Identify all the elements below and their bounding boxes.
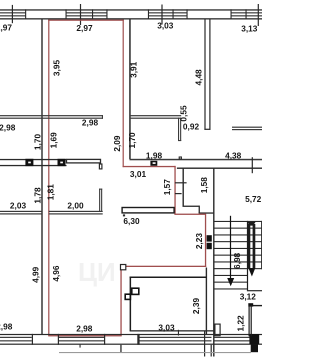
vestibule left wall line 1 xyxy=(249,305,250,336)
stair door block upper xyxy=(207,235,212,241)
dimension tick on wall A right xyxy=(252,157,253,173)
duct fixture inner box xyxy=(125,294,130,299)
door tick upper in lobby xyxy=(175,182,187,183)
door tick lower in lobby xyxy=(175,193,182,194)
window W3 dimension tick xyxy=(161,5,162,25)
porch left wall below band xyxy=(120,345,121,353)
stair landing bottom line xyxy=(247,290,262,291)
svg-text:5,72: 5,72 xyxy=(245,194,262,204)
stair stringer top trapezoid xyxy=(247,222,256,226)
neighbour closet wall right line xyxy=(180,118,181,141)
neighbour closet wall left line xyxy=(178,118,179,141)
svg-text:3,01: 3,01 xyxy=(130,169,147,179)
room 2,39 top wall xyxy=(130,277,207,279)
svg-text:1,69: 1,69 xyxy=(49,132,59,149)
stair stringer bottom arrow xyxy=(248,268,255,277)
wall row2 pier block A xyxy=(25,159,33,166)
window W2 mullion xyxy=(92,9,93,19)
svg-text:4,38: 4,38 xyxy=(225,151,242,161)
window W2 dimension tick xyxy=(80,4,81,25)
lower wall row3 left segment top line xyxy=(0,211,42,212)
red unit boundary left side xyxy=(48,20,49,336)
wall V1 between left flat and unit xyxy=(41,19,42,335)
bottom pier box 1 right edge xyxy=(58,334,59,345)
bottom black pier xyxy=(249,334,259,344)
wall row2 band bottom line xyxy=(0,165,67,166)
red unit boundary top side xyxy=(48,20,124,21)
square bump marker on wall A xyxy=(179,157,181,159)
bottom black pier lower part xyxy=(251,344,258,352)
window W2 hatch lines xyxy=(66,12,107,16)
window W3 mullion xyxy=(173,9,174,19)
stair stringer right bar xyxy=(253,224,256,268)
bottom wall right hatch xyxy=(215,337,250,342)
svg-text:1,58: 1,58 xyxy=(199,177,209,194)
bottom exterior wall bottom chord xyxy=(0,344,262,345)
white corner marker square xyxy=(121,265,126,270)
svg-text:6,30: 6,30 xyxy=(123,216,140,226)
lower wall row3 unit segment top line xyxy=(49,211,103,212)
unit hall wall bar xyxy=(67,159,101,163)
corridor wall row1 top line left part xyxy=(0,115,103,116)
svg-text:3,03: 3,03 xyxy=(158,323,175,333)
svg-text:2,23: 2,23 xyxy=(194,233,204,250)
stair door block lower xyxy=(207,243,212,249)
red unit boundary niche top xyxy=(174,214,206,215)
svg-text:3,95: 3,95 xyxy=(52,60,62,77)
6,30 wall bar xyxy=(122,208,174,213)
svg-text:2,97: 2,97 xyxy=(76,23,93,33)
red unit boundary lower right vertical xyxy=(120,266,121,336)
window W3 right edge xyxy=(187,9,188,19)
bottom pier box 1 left edge xyxy=(32,334,33,345)
wall line A (1,98 / 4,38 wall) xyxy=(130,159,263,161)
wall right of 2,39 room xyxy=(206,268,207,335)
neighbour wall row1 top line xyxy=(131,115,182,116)
room 2,39 bottom line xyxy=(130,330,214,331)
neighbour closet wall bottom cap xyxy=(178,140,181,141)
stair treads full width xyxy=(214,221,262,269)
stair right edge line xyxy=(260,221,263,269)
svg-text:1,22: 1,22 xyxy=(235,315,245,332)
vestibule top line xyxy=(249,305,263,306)
vestibule corner block xyxy=(248,303,253,306)
svg-text:2,97: 2,97 xyxy=(0,23,12,33)
stair treads lower flight left half xyxy=(214,275,248,290)
svg-text:2,98: 2,98 xyxy=(0,322,13,332)
window W3 left edge xyxy=(148,9,149,19)
top exterior wall bottom chord xyxy=(0,18,262,19)
stair stringer left bar xyxy=(248,224,251,268)
pier block A white dot xyxy=(28,162,31,164)
tick below band at x 80 xyxy=(80,345,81,348)
svg-text:2,98: 2,98 xyxy=(0,122,16,132)
closet upright left line xyxy=(99,189,100,212)
window W1 dimension tick xyxy=(12,5,13,23)
wall row2 band top line xyxy=(0,159,67,160)
lift shaft bottom step vertical xyxy=(199,206,200,214)
red unit boundary right side upper xyxy=(123,20,124,168)
window W3 hatch lines xyxy=(148,12,187,16)
unit hall wall bar tab xyxy=(99,164,102,169)
window W2 left edge xyxy=(66,9,67,19)
lift shaft left wall xyxy=(183,168,184,207)
wall V4 double line right xyxy=(209,19,210,130)
svg-text:1,81: 1,81 xyxy=(46,184,56,201)
svg-text:3,03: 3,03 xyxy=(157,21,174,31)
window W1 right edge xyxy=(25,9,26,19)
svg-text:1,70: 1,70 xyxy=(33,134,43,151)
svg-text:2,00: 2,00 xyxy=(67,201,84,211)
svg-text:0,92: 0,92 xyxy=(183,122,200,132)
svg-text:1,98: 1,98 xyxy=(146,150,163,160)
top exterior wall top chord xyxy=(0,9,262,10)
tick below 6,30 bar left end xyxy=(123,214,125,216)
bottom window BW2 hatch xyxy=(59,337,104,342)
window W4 dimension tick xyxy=(258,4,259,26)
small box right of stair wall xyxy=(215,324,220,336)
neighbour right wall row bottom line xyxy=(232,129,262,130)
pier block C white dot xyxy=(153,162,156,164)
window W4 hatch lines xyxy=(231,12,262,16)
window W2 right edge xyxy=(106,9,107,19)
bottom exterior wall top chord xyxy=(0,334,262,335)
bottom window BW3 hatch xyxy=(139,337,212,342)
svg-text:2,39: 2,39 xyxy=(191,298,201,315)
vestibule left wall line 2 xyxy=(251,305,252,336)
porch wall a xyxy=(204,331,205,357)
closet upright top cap xyxy=(99,189,102,190)
stair flight divider xyxy=(247,221,248,290)
svg-text:1,70: 1,70 xyxy=(127,132,137,149)
bottom window BW1 hatch xyxy=(0,337,32,342)
window W1 hatch lines xyxy=(0,12,26,16)
corridor wall row1 bottom line left part xyxy=(0,118,103,119)
svg-text:ЦИ: ЦИ xyxy=(78,257,116,287)
lower wall row3 left segment bottom line xyxy=(0,213,42,214)
svg-text:4,48: 4,48 xyxy=(194,69,204,86)
svg-text:3,91: 3,91 xyxy=(129,61,139,78)
window W4 mullion xyxy=(246,9,247,19)
bottom pier box 2 left edge xyxy=(104,334,105,345)
closet upright right line xyxy=(101,189,102,212)
neighbour right wall row top line xyxy=(232,127,262,128)
pier block C on red wall xyxy=(150,161,157,166)
svg-text:4,99: 4,99 xyxy=(31,266,41,283)
svg-text:6,98: 6,98 xyxy=(232,252,242,269)
wall V4 double line left xyxy=(204,19,205,130)
wall V4 bottom cap xyxy=(204,129,210,130)
svg-text:3,13: 3,13 xyxy=(241,24,258,34)
svg-text:2,09: 2,09 xyxy=(112,135,122,152)
svg-text:0,55: 0,55 xyxy=(179,105,189,122)
tick after 3,03 xyxy=(178,330,179,336)
svg-text:1,57: 1,57 xyxy=(162,179,172,196)
svg-text:2,98: 2,98 xyxy=(82,117,99,127)
window W4 left edge xyxy=(231,9,232,19)
porch step line xyxy=(59,352,251,353)
red unit boundary hall right vertical xyxy=(174,166,175,214)
red unit boundary lower horizontal xyxy=(120,266,206,267)
bottom window BW3 left edge xyxy=(139,334,140,345)
red unit boundary bottom side xyxy=(48,335,122,336)
lift shaft bottom line xyxy=(183,206,200,207)
stair down arrow line xyxy=(230,216,231,279)
lower wall row3 unit segment bottom line xyxy=(49,213,103,214)
bottom pier box 2 right edge xyxy=(137,334,138,345)
svg-text:3,12: 3,12 xyxy=(240,291,257,301)
duct fixture outer box xyxy=(132,288,139,294)
svg-text:1,78: 1,78 xyxy=(33,187,43,204)
wall line B right part xyxy=(177,168,262,169)
stair left wall xyxy=(213,168,214,357)
corridor wall row1 end cap xyxy=(102,115,103,119)
lift shaft bottom step horizontal xyxy=(199,212,215,213)
svg-text:4,96: 4,96 xyxy=(51,265,61,282)
red unit boundary niche right vertical xyxy=(205,214,206,267)
pier block B white dot xyxy=(60,162,63,164)
stair down arrow head xyxy=(227,278,234,286)
room 2,39 left wall xyxy=(130,277,132,331)
porch wall b xyxy=(211,345,212,357)
svg-text:2,03: 2,03 xyxy=(10,201,27,211)
neighbour wall row1 bottom line xyxy=(131,118,182,119)
svg-text:2,98: 2,98 xyxy=(76,324,93,334)
red unit boundary hall top xyxy=(123,166,176,167)
wall row2 pier block B xyxy=(58,159,66,166)
wall V3 right of unit top room xyxy=(129,19,131,160)
